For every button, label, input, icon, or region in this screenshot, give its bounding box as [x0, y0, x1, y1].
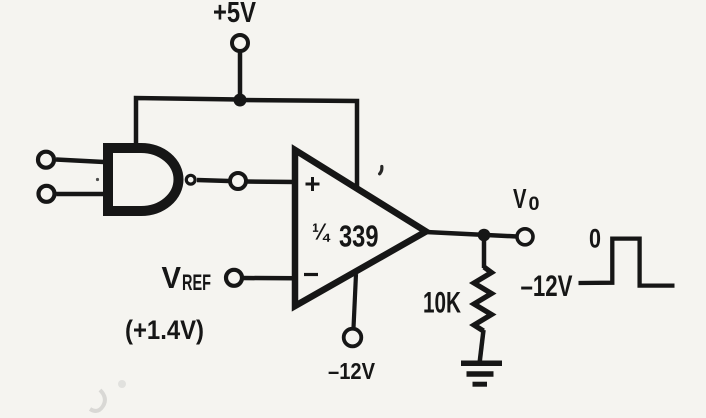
- label VREF: [162, 260, 212, 295]
- NAND input terminal 2: [39, 186, 55, 202]
- wire NAND bubble to terminal: [197, 180, 229, 181]
- wire input 2 to gate: [57, 192, 105, 197]
- ground: [461, 363, 502, 384]
- label -12V supply: [328, 358, 375, 384]
- wire resistor to ground: [480, 330, 484, 361]
- wire junction left to NAND top: [136, 98, 240, 146]
- svg-text:10K: 10K: [423, 287, 461, 320]
- wire comparator V- pin: [354, 274, 357, 328]
- terminal +5V: [232, 35, 248, 51]
- terminal VREF: [226, 270, 242, 286]
- wire +5V terminal to junction: [238, 51, 243, 100]
- wire input 1 to gate: [56, 160, 104, 163]
- svg-text:339: 339: [339, 220, 379, 254]
- label 1/4 339: [312, 219, 379, 254]
- svg-text:(+1.4V): (+1.4V): [125, 315, 204, 345]
- + input marking: [306, 177, 320, 191]
- node A junction dot: [234, 94, 247, 107]
- waveform pulse: [579, 239, 675, 286]
- svg-text:V: V: [162, 260, 182, 295]
- label +5V: [213, 0, 257, 29]
- label 0 waveform level: [589, 224, 601, 254]
- terminal NAND output: [230, 173, 246, 189]
- wire comparator output: [426, 232, 517, 237]
- - input marking: [304, 273, 318, 276]
- label 10K: [423, 287, 461, 320]
- svg-text:¼: ¼: [312, 219, 331, 245]
- label -12V waveform level: [521, 270, 573, 303]
- svg-text:REF: REF: [182, 270, 211, 295]
- resistor R1 10K: [474, 267, 492, 331]
- node output junction: [478, 229, 491, 242]
- svg-text:–12V: –12V: [328, 358, 375, 384]
- label (+1.4V): [125, 315, 204, 345]
- NAND input terminal 1: [38, 152, 54, 168]
- wire junction down to resistor: [482, 235, 487, 268]
- terminal -12V: [344, 329, 362, 347]
- svg-text:–12V: –12V: [521, 270, 573, 303]
- wire VREF to - input: [243, 276, 296, 281]
- op-amp U2 comparator triangle: [295, 150, 426, 306]
- wire junction right to comparator V+ pin: [240, 100, 357, 189]
- label V0: [513, 183, 540, 215]
- svg-text:0: 0: [589, 224, 601, 254]
- terminal V0: [517, 229, 533, 245]
- NAND output bubble: [186, 175, 195, 184]
- wire terminal to comparator + input: [246, 179, 296, 184]
- svg-text:0: 0: [529, 193, 540, 215]
- svg-text:V: V: [513, 183, 527, 214]
- NAND gate U1 body: [108, 148, 179, 211]
- svg-text:+5V: +5V: [213, 0, 257, 29]
